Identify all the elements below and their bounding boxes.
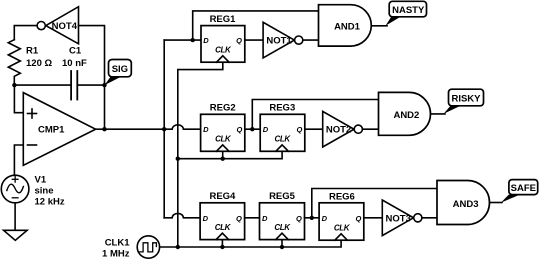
svg-text:Q: Q	[236, 125, 242, 134]
svg-text:CLK: CLK	[215, 223, 232, 232]
gate AND2	[379, 92, 431, 135]
svg-text:NOT3: NOT3	[386, 213, 411, 224]
node signal bus / CMP1 output junction dot	[162, 127, 166, 131]
wire REG5 clock stem	[281, 240, 283, 247]
flip-flop REG3	[260, 103, 305, 152]
flip-flop REG1	[201, 14, 245, 62]
wire REG4 Q to REG5 D	[245, 217, 260, 219]
gate AND1	[319, 5, 372, 46]
gate AND3	[437, 181, 490, 225]
wire NOT3 to AND3	[422, 217, 437, 219]
svg-text:NOT4: NOT4	[52, 21, 78, 32]
svg-text:Q: Q	[296, 125, 302, 134]
wire NOT4 output to R1 top	[14, 26, 37, 40]
node clock bus row2 junction dot	[176, 157, 180, 161]
svg-text:R1: R1	[26, 46, 39, 57]
svg-text:CLK1: CLK1	[105, 238, 131, 249]
wire REG6 Q to NOT3	[364, 217, 383, 219]
wire REG5 Q to REG6 D	[305, 217, 320, 219]
ground	[4, 230, 28, 240]
wire C1 to SIG node	[77, 84, 104, 86]
svg-text:CLK: CLK	[215, 46, 232, 55]
flip-flop REG5	[260, 191, 305, 240]
node SIG junction dot	[102, 83, 106, 87]
wire NOT2 to AND2	[362, 128, 378, 130]
node clock bus bottom junction dot	[176, 245, 180, 249]
svg-text:CLK: CLK	[274, 135, 291, 144]
node AND1 branch junction dot	[191, 38, 195, 42]
svg-text:REG2: REG2	[210, 103, 236, 114]
svg-text:REG1: REG1	[210, 14, 237, 25]
flag SIG	[105, 60, 132, 86]
node REG5-REG6 junction dot	[310, 216, 314, 220]
svg-text:REG6: REG6	[329, 192, 355, 203]
wire V1 to ground	[14, 203, 16, 231]
wire REG2 clock stem	[222, 151, 224, 158]
node CMP1 output junction dot	[102, 127, 106, 131]
signal bus vertical	[163, 40, 165, 218]
svg-text:10 nF: 10 nF	[62, 58, 87, 69]
wire REG3 Q to NOT2	[305, 128, 323, 130]
svg-text:Q: Q	[296, 214, 302, 223]
svg-text:NASTY: NASTY	[392, 5, 425, 16]
svg-text:AND1: AND1	[334, 22, 361, 33]
svg-text:120 Ω: 120 Ω	[26, 58, 52, 69]
wire REG2 Q to REG3 D	[245, 128, 260, 130]
svg-text:D: D	[262, 214, 268, 223]
flip-flop REG6	[319, 192, 364, 241]
wire row3 D with hop over clock bus	[164, 213, 200, 217]
svg-text:SIG: SIG	[112, 64, 128, 75]
svg-text:CLK: CLK	[274, 223, 291, 232]
node REG5 clock junction dot	[280, 245, 284, 249]
clock source CLK1	[102, 236, 160, 260]
svg-text:AND2: AND2	[393, 110, 419, 121]
inverter NOT4	[37, 7, 78, 44]
svg-text:NOT1: NOT1	[266, 36, 292, 47]
svg-text:D: D	[203, 36, 209, 45]
flag NASTY	[386, 1, 427, 26]
wire to CMP1 minus input	[14, 145, 23, 175]
wire CLK1 to REG6 clock	[160, 240, 342, 247]
wire AND2 output	[431, 113, 446, 115]
wire REG4 clock stem	[221, 240, 223, 247]
svg-text:REG3: REG3	[269, 103, 295, 114]
wire CMP1 output to signal bus	[96, 128, 165, 130]
flag RISKY	[444, 89, 484, 114]
inverter NOT1	[263, 22, 303, 58]
svg-text:V1: V1	[35, 175, 47, 186]
svg-text:SAFE: SAFE	[511, 183, 536, 194]
svg-text:CMP1: CMP1	[38, 125, 65, 136]
wire branch up to AND3 top input	[312, 189, 437, 218]
node REG2 clock junction dot	[221, 157, 225, 161]
svg-text:1 MHz: 1 MHz	[102, 249, 130, 260]
flip-flop REG4	[200, 191, 245, 240]
svg-text:CLK: CLK	[215, 135, 232, 144]
svg-text:D: D	[203, 214, 209, 223]
wire to CMP1 plus input	[14, 85, 23, 113]
flip-flop REG2	[201, 103, 245, 152]
svg-text:sine: sine	[35, 186, 54, 197]
wire branch up to AND1 top input	[193, 11, 319, 40]
svg-text:CLK: CLK	[334, 223, 351, 232]
wire row1 D	[164, 39, 201, 41]
wire branch up to AND2 top input	[252, 100, 378, 130]
wire AND3 output	[490, 202, 503, 204]
voltage source V1	[1, 175, 65, 208]
svg-text:D: D	[322, 214, 328, 223]
svg-text:Q: Q	[355, 214, 361, 223]
wire row2 D with hop over clock bus	[164, 125, 200, 129]
svg-text:AND3: AND3	[453, 199, 479, 210]
svg-text:12 kHz: 12 kHz	[35, 197, 65, 208]
node R1/C1/+input junction dot	[12, 83, 16, 87]
svg-text:D: D	[203, 125, 209, 134]
inverter NOT3	[382, 200, 422, 236]
flag SAFE	[501, 180, 538, 203]
svg-text:Q: Q	[236, 36, 242, 45]
wire SIG node down to CMP1 output	[104, 85, 106, 129]
resistor R1	[8, 40, 52, 85]
op-amp CMP1	[23, 93, 95, 166]
wire NOT1 to AND1	[303, 39, 319, 41]
wire R1 to C1	[14, 84, 71, 86]
svg-text:D: D	[263, 125, 269, 134]
wire REG1 Q to NOT1	[245, 39, 263, 41]
wire NOT4 input from SIG node vertical	[79, 26, 105, 86]
svg-text:NOT2: NOT2	[326, 125, 351, 136]
wire AND1 output	[371, 25, 387, 27]
clock bus vertical	[178, 62, 223, 247]
svg-text:REG5: REG5	[269, 191, 296, 202]
capacitor C1	[62, 46, 87, 100]
svg-text:RISKY: RISKY	[451, 94, 481, 105]
svg-text:REG4: REG4	[209, 191, 236, 202]
svg-text:C1: C1	[69, 46, 82, 57]
inverter NOT2	[323, 111, 363, 147]
node REG2-REG3 junction dot	[250, 127, 254, 131]
node REG4 clock junction dot	[220, 245, 224, 249]
wire row2 clock	[178, 151, 282, 158]
svg-text:Q: Q	[236, 214, 242, 223]
